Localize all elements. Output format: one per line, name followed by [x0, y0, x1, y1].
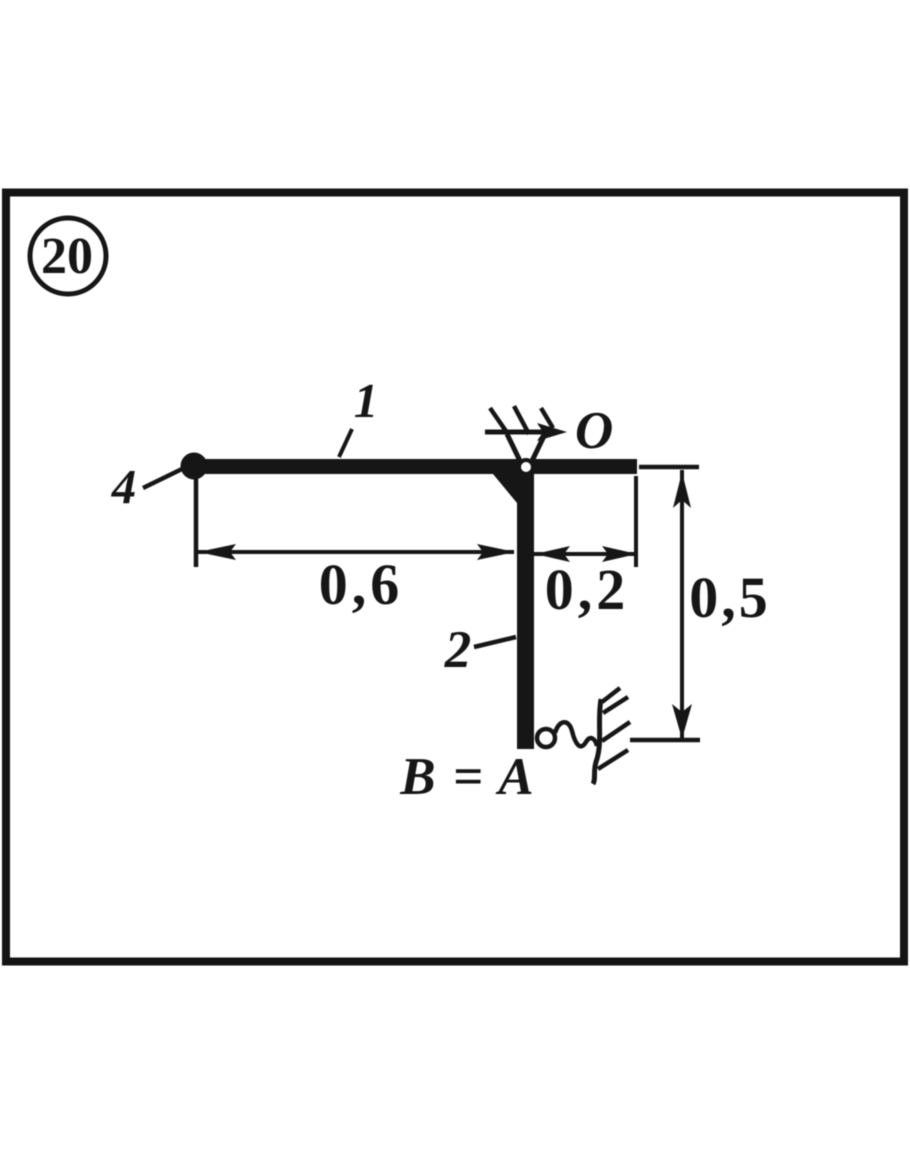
svg-text:4: 4 — [111, 459, 137, 514]
svg-text:1: 1 — [354, 373, 379, 428]
svg-text:0,2: 0,2 — [545, 557, 630, 622]
svg-text:2: 2 — [444, 621, 472, 679]
svg-text:20: 20 — [41, 228, 93, 285]
svg-text:B = A: B = A — [399, 748, 535, 806]
svg-text:O: O — [575, 402, 613, 460]
svg-text:0,5: 0,5 — [689, 565, 771, 630]
svg-text:0,6: 0,6 — [319, 552, 404, 617]
